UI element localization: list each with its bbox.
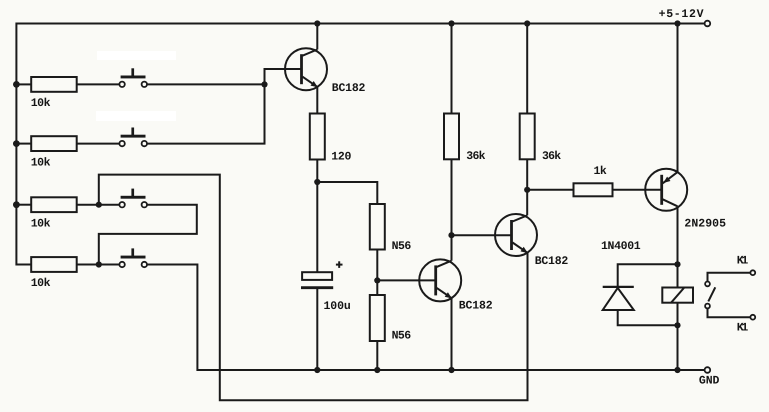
node rail Q2 [448,367,454,373]
svg-text:10k: 10k [31,156,51,169]
node G below R9 [524,187,530,193]
wire diode bottom to relay bottom node [618,310,678,325]
svg-text:+5-12V: +5-12V [659,8,704,21]
capacitor C1 100u [301,272,333,288]
relay contact K1 top wire [708,273,751,282]
wire row1 switch to node A [147,83,264,85]
node top rail Q1 [314,20,320,26]
wire R6 to R7 through node E [376,250,378,296]
node bus row2 [13,140,20,147]
svg-text:36k: 36k [466,150,485,163]
wire node G to R10 [527,189,573,191]
node relay bottom [674,322,680,328]
wire R10 to Q4 base [613,189,662,191]
wire relay top node left and down to diode [618,264,678,287]
wire R8 bottom through node F to Q2 collector [451,159,453,260]
node bus row3 [13,201,20,208]
relay contact K1 bottom wire [708,308,751,317]
wire row2 switch to node A riser [147,84,264,143]
svg-text:1N4001: 1N4001 [601,240,641,253]
node top rail R9 [524,20,530,26]
resistor R4 10k [31,257,76,272]
resistor R3 10k [31,197,76,212]
switch S4 pushbutton [121,248,146,258]
svg-text:2N2905: 2N2905 [684,218,726,231]
resistor R9 36k [520,114,535,160]
node bus row1 [13,81,20,88]
svg-text:K1: K1 [737,255,749,268]
node top rail R8 [448,20,454,26]
wire row2 resistor to switch [77,143,120,145]
wire node A up to Q1 base [265,69,302,84]
svg-text:K1: K1 [737,322,749,335]
svg-text:100u: 100u [324,300,351,313]
wire row4 resistor to switch [77,264,120,266]
resistor R6 N56 upper [370,204,385,250]
wire R7 bottom to ground rail [376,341,378,370]
wire row1 left lead [16,83,31,85]
wire Q4 emitter to top rail [677,24,679,173]
wire relay bottom to ground rail [677,303,679,370]
terminal circle K1 top [750,270,755,275]
wire row4 switch to ground rail [147,265,704,371]
svg-text:BC182: BC182 [535,255,569,268]
wire row3 left lead [16,204,31,206]
transistor Q3 BC182 [495,214,537,256]
resistor R7 N56 lower [370,295,385,341]
wire node F to Q3 base [452,234,512,236]
svg-text:BC182: BC182 [332,82,366,95]
node rail R7 [374,367,380,373]
terminal GND [705,367,711,373]
wire node E to Q2 base [377,279,435,281]
svg-text:10k: 10k [31,217,51,230]
wire Q2 emitter to ground rail [451,298,453,370]
plus sign of C1 [336,261,343,268]
wire row3 switch right down and back to node C [99,205,197,265]
contact lower terminal [705,304,710,309]
node top rail Q4 [674,20,680,26]
resistor R5 120 [310,114,325,160]
terminal +5-12V [705,21,711,27]
switch S3 pushbutton [121,189,146,199]
wire Q3 collector to node G [526,190,528,216]
wire 36k R8 top to rail [451,24,453,114]
wire row2 left lead [16,143,31,145]
switch S2 pushbutton [121,128,146,138]
svg-text:GND: GND [699,375,720,388]
switch S1 pushbutton [121,68,146,78]
svg-text:120: 120 [331,150,351,163]
svg-text:N56: N56 [392,330,412,343]
node relay top [674,261,680,267]
diode D1 1N4001 [603,287,634,310]
wire Q1 collector to top rail [316,24,318,50]
svg-text:10k: 10k [31,277,51,290]
transistor Q1 BC182 [285,48,327,90]
wire top rail and left bus [16,24,704,265]
wire R5 bottom through node D to capacitor [316,160,318,273]
node A base Q1 [261,81,267,87]
wire node B up over and down to Q3 emitter return [99,175,528,401]
contact blade [708,287,715,301]
svg-text:10k: 10k [31,97,51,110]
svg-text:BC182: BC182 [459,300,493,313]
node rail relay [674,367,680,373]
resistor R2 10k [31,136,76,151]
svg-text:1k: 1k [594,165,607,178]
resistor R10 1k [574,183,613,196]
transistor Q2 BC182 [419,259,461,301]
wire row1 resistor to switch [77,83,120,85]
wire node D right and down to R6 [317,182,377,204]
resistor R8 36k [444,114,459,160]
wire R9 bottom to node G [526,159,528,190]
node B row3 junction [96,202,102,208]
node C row4 junction [96,261,102,267]
resistor R1 10k [31,77,76,92]
wire C1 to ground rail [316,288,318,370]
wire Q4 collector down to relay top node [677,206,679,287]
node E between N56 [374,277,380,283]
wire row3 resistor to switch through node B [77,204,120,206]
node D below R5 [314,179,320,185]
relay coil K1 [662,288,693,303]
transistor Q4 2N2905 [645,169,687,211]
svg-text:N56: N56 [392,240,412,253]
contact upper terminal [705,282,710,287]
terminal circle K1 bottom [750,315,755,320]
node F below R8 [448,232,454,238]
svg-text:36k: 36k [542,150,561,163]
wire Q1 emitter down to R5 [316,87,318,114]
node rail C1 [314,367,320,373]
wire 36k R9 top to rail [526,24,528,114]
